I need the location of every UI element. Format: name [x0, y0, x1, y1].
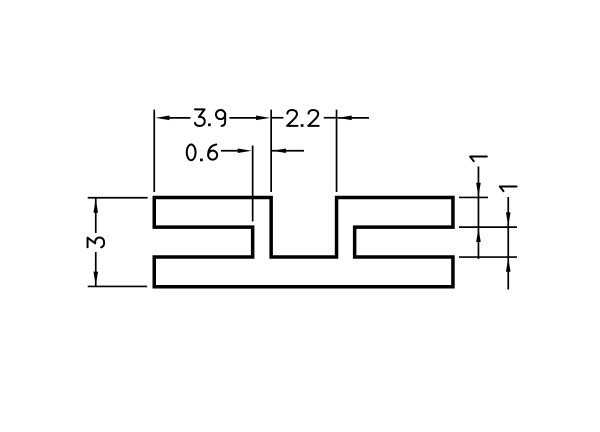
dimension line 2.2: [272, 117, 284, 119]
extension line slot web (0.6 dim): [252, 145, 254, 221]
dimension line 3 (vertical): [95, 198, 97, 233]
dimension line 0.6 leader: [221, 150, 238, 152]
extension line notch right wall (2.2 dim): [336, 110, 338, 192]
arrowhead 0.6 right (outside): [272, 148, 286, 153]
arrowhead 0.6 left: [238, 148, 252, 153]
extension line profile top (left, 3 dim): [88, 197, 148, 199]
arrowhead 3 down: [93, 272, 98, 286]
extension line profile top (right, 1 dim): [459, 196, 488, 198]
profile outline (H-groove extrusion cross-section): [154, 197, 453, 286]
extension line notch left wall (3.9/2.2/0.6 dims): [270, 110, 272, 192]
arrowhead 2.2 right (outside): [338, 116, 352, 121]
label 1 lower (rotated): [500, 187, 517, 192]
extension line profile bottom (left, 3 dim): [88, 285, 147, 287]
arrowhead 1 upper down: [476, 183, 481, 197]
arrowhead 1 upper up: [476, 228, 481, 242]
label 3 (rotated): [88, 237, 105, 247]
arrowhead 3 up: [93, 199, 98, 213]
label 1 upper (rotated): [470, 157, 487, 162]
label 2.2: [287, 110, 298, 126]
label 3.9: [195, 109, 205, 126]
extension line left edge (3.9 dim): [153, 110, 155, 192]
extension line slot top (right, 1 dims): [459, 226, 517, 228]
arrowhead 3.9 right: [256, 116, 270, 121]
dimension line 3.9: [168, 117, 190, 119]
dimension 0.6 outside tail: [272, 150, 304, 152]
dimension line 1 lower (vertical): [507, 197, 509, 290]
dimension 2.2 outside tail: [338, 117, 369, 119]
label 0.6: [187, 144, 196, 160]
arrowhead 1 lower up: [506, 258, 511, 272]
arrowhead 1 lower down: [506, 212, 511, 226]
extension line slot bottom (right, 1 dim): [459, 256, 517, 258]
arrowhead 3.9 left: [155, 116, 169, 121]
dimension line 1 upper (vertical): [477, 166, 479, 259]
